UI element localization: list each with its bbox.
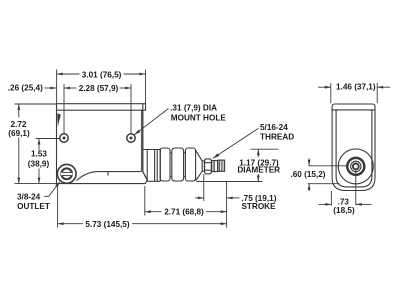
threaded rod end [218, 160, 225, 171]
svg-text:3.01 (76,5): 3.01 (76,5) [82, 70, 122, 79]
.31 leader [134, 109, 168, 135]
.73 left ext [330, 191, 332, 206]
1.17 dim pieces [257, 149, 259, 157]
svg-text:THREAD: THREAD [260, 133, 294, 142]
pushrod collar [202, 161, 204, 171]
.75 ext line [203, 174, 205, 201]
taper cone [196, 150, 203, 181]
mount hole left [60, 134, 68, 142]
2.28 arrows [64, 87, 70, 90]
mount hole right [127, 134, 135, 142]
1.53 ext line [36, 138, 60, 140]
2.71 dim line [145, 211, 162, 213]
.60 dim pieces [308, 159, 310, 166]
.60 arrows [308, 160, 311, 166]
.75 dim pieces [195, 197, 204, 199]
svg-text:OUTLET: OUTLET [17, 202, 50, 211]
svg-text:5/16-24: 5/16-24 [260, 123, 288, 132]
outlet slot [61, 172, 73, 175]
1.46 dim pieces [318, 86, 331, 88]
svg-text:2.71 (68,8): 2.71 (68,8) [164, 208, 204, 217]
.60 bottom ext [308, 183, 340, 185]
5/16 leader [213, 128, 259, 158]
arrowheads [17, 73, 383, 226]
.75 arrows [198, 197, 204, 200]
lip line [332, 109, 375, 111]
svg-text:2.28 (57,9): 2.28 (57,9) [79, 84, 119, 93]
svg-text:MOUNT HOLE: MOUNT HOLE [171, 113, 227, 122]
2.72 ext lines [15, 103, 57, 105]
.31 leader arrow [134, 130, 140, 135]
right end view: outer outline [332, 104, 375, 191]
svg-text:.31 (7,9) DIA: .31 (7,9) DIA [170, 103, 217, 112]
svg-text:5.73 (145,5): 5.73 (145,5) [85, 220, 129, 229]
5/16 leader arrow [213, 153, 219, 158]
body (side view) [57, 110, 148, 183]
2.71 ext line [144, 186, 146, 216]
snout [143, 150, 160, 182]
1.46 ext lines [330, 83, 332, 103]
3.01 dim line [57, 73, 80, 75]
5.73 ext lines [57, 187, 59, 228]
2.71 arrows [145, 210, 151, 213]
svg-text:1.53: 1.53 [31, 150, 47, 159]
corner wedge below lip [57, 113, 61, 126]
chamfer body to snout [143, 172, 148, 181]
1.17 top ext [251, 148, 279, 150]
5.73 arrows [58, 222, 64, 225]
internal step line [77, 172, 142, 181]
5.73 dim line [58, 223, 83, 225]
2.72 dim line [18, 104, 20, 118]
.73 arrows [325, 203, 331, 206]
.26 dim line [45, 87, 57, 89]
svg-text:3/8-24: 3/8-24 [17, 193, 41, 202]
dimension lines & extension lines [15, 70, 391, 228]
3.01 ext lines [56, 70, 58, 104]
1.17 arrows [257, 149, 260, 155]
2.28 ext lines [63, 84, 65, 134]
2.72 arrows [17, 104, 20, 110]
.60 top ext [309, 165, 348, 167]
bellows boot: 3 convolutions [160, 148, 170, 181]
center vertical [355, 170, 357, 206]
hex nut [205, 159, 212, 174]
1.53 dim line [38, 139, 40, 151]
outlet leader [44, 183, 59, 197]
.73 dim pieces [319, 203, 332, 205]
svg-text:.60 (15,2): .60 (15,2) [290, 170, 325, 179]
1.46 arrows [325, 86, 331, 89]
outlet circle [57, 164, 76, 183]
1.53 arrows [38, 139, 41, 145]
body right edge (double line) [142, 110, 144, 171]
svg-text:DIAMETER: DIAMETER [237, 165, 280, 174]
lip right inner edge [142, 104, 144, 111]
3.01 arrows [57, 73, 63, 76]
svg-text:.26 (25,4): .26 (25,4) [8, 84, 43, 93]
step tick [107, 172, 109, 176]
.26 arrow [50, 87, 56, 90]
outlet leader arrow [55, 181, 60, 187]
2.28 dim line [64, 87, 77, 89]
svg-text:(69,1): (69,1) [8, 129, 30, 138]
svg-text:STROKE: STROKE [241, 202, 276, 211]
inner outline [336, 110, 372, 187]
svg-text:1.46 (37,1): 1.46 (37,1) [336, 83, 376, 92]
circles [338, 149, 373, 184]
flange lip (side view) [57, 104, 146, 111]
svg-text:(38,9): (38,9) [28, 160, 50, 169]
svg-text:(18,5): (18,5) [333, 206, 355, 215]
1.17 bottom ext (long) [197, 181, 263, 183]
washers [212, 161, 214, 172]
